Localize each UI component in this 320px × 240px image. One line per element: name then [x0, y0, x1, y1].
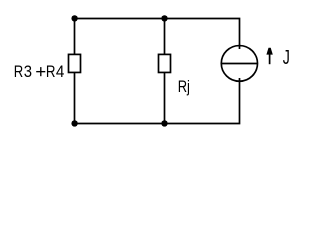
svg-text:R: R — [46, 64, 56, 81]
svg-text:4: 4 — [56, 64, 65, 82]
svg-text:3: 3 — [24, 63, 32, 81]
svg-text:Rj: Rj — [178, 79, 190, 97]
svg-text:J: J — [283, 45, 290, 68]
svg-text:R: R — [14, 64, 23, 82]
